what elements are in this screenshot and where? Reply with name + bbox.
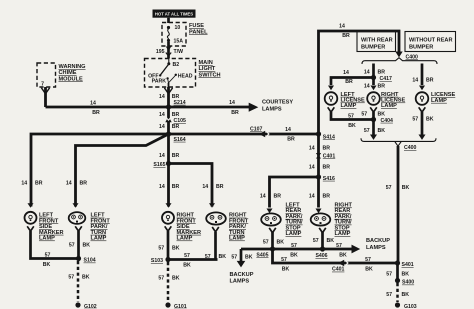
svg-text:G102: G102 — [84, 304, 97, 309]
svg-text:C400: C400 — [404, 145, 417, 151]
svg-text:57: 57 — [68, 274, 74, 280]
svg-text:G101: G101 — [174, 304, 187, 309]
svg-text:LAMP: LAMP — [177, 236, 193, 242]
svg-text:BK: BK — [402, 185, 410, 191]
svg-text:BK: BK — [365, 267, 373, 273]
svg-text:C107: C107 — [250, 126, 263, 132]
svg-text:14: 14 — [202, 184, 208, 190]
svg-text:MODULE: MODULE — [59, 76, 84, 82]
wire left rear lamp to S405 — [271, 232, 274, 249]
svg-text:S164: S164 — [174, 137, 186, 143]
arrow to backup lamps right — [352, 245, 361, 254]
svg-text:57: 57 — [386, 271, 392, 277]
svg-text:C404: C404 — [381, 118, 394, 124]
ground G101 — [165, 302, 170, 307]
svg-text:FUSE: FUSE — [189, 23, 204, 29]
svg-text:BR: BR — [35, 180, 43, 186]
svg-text:14: 14 — [260, 193, 266, 199]
splice S165 — [166, 161, 171, 166]
svg-text:BR: BR — [172, 153, 180, 159]
splice S405 — [270, 246, 275, 251]
svg-text:WITH REAR: WITH REAR — [361, 38, 393, 44]
svg-text:BK: BK — [348, 123, 356, 129]
ground wire to G102 — [77, 261, 80, 302]
svg-text:HOT AT ALL TIMES: HOT AT ALL TIMES — [155, 12, 193, 17]
svg-text:HEAD: HEAD — [178, 73, 193, 79]
svg-text:57: 57 — [412, 116, 418, 122]
svg-text:BR: BR — [345, 79, 353, 85]
svg-text:14: 14 — [343, 70, 349, 76]
svg-text:BUMPER: BUMPER — [409, 44, 433, 50]
svg-text:BR: BR — [378, 84, 386, 90]
svg-text:57: 57 — [386, 185, 392, 191]
svg-text:LAMP: LAMP — [39, 236, 55, 242]
wire left license to C404 — [331, 112, 374, 120]
splice S400 — [395, 278, 400, 283]
wire S416 down to right rear lamp — [317, 177, 320, 208]
svg-text:BR: BR — [274, 193, 282, 199]
connector C400 lower bracket — [370, 135, 377, 140]
svg-text:B2: B2 — [173, 62, 180, 68]
svg-text:T/W: T/W — [174, 49, 184, 55]
connector C404 — [371, 117, 376, 122]
wire S416 to left rear lamp — [270, 177, 319, 208]
wire S164 left to left front side marker — [31, 134, 169, 207]
wire S401 to S400 — [396, 263, 399, 281]
svg-text:PANEL: PANEL — [189, 29, 208, 35]
wire left park lamp to S104 — [77, 231, 80, 259]
svg-text:LAMPS: LAMPS — [262, 106, 282, 112]
svg-text:57: 57 — [158, 246, 164, 252]
svg-text:S406: S406 — [315, 253, 327, 259]
WITH REAR BUMPER box — [357, 32, 396, 52]
svg-text:57: 57 — [158, 275, 164, 281]
connector C400 (top half, male arrow) — [395, 52, 402, 58]
connector C401 (ground bus) — [338, 260, 344, 266]
svg-text:195: 195 — [156, 49, 165, 55]
svg-text:S165: S165 — [153, 162, 165, 168]
svg-text:BK: BK — [83, 243, 91, 249]
svg-text:BR: BR — [80, 180, 88, 186]
svg-text:LAMP: LAMP — [286, 231, 302, 237]
svg-text:57: 57 — [313, 238, 319, 244]
svg-text:PARK: PARK — [152, 78, 167, 84]
left front park/turn lamp — [69, 203, 111, 241]
svg-text:57: 57 — [361, 111, 367, 117]
svg-text:MAIN: MAIN — [199, 60, 213, 66]
connector C107 — [259, 131, 265, 137]
svg-text:CHIME: CHIME — [59, 70, 77, 76]
wire C417 left to left license lamp — [331, 78, 374, 86]
svg-text:14: 14 — [159, 184, 165, 190]
wire S414 down to S416 — [317, 134, 320, 177]
svg-text:LAMP: LAMP — [91, 236, 107, 242]
svg-text:BK: BK — [282, 267, 290, 273]
svg-text:57: 57 — [365, 257, 371, 263]
svg-text:BK: BK — [327, 238, 335, 244]
wire S164 down to S165 — [167, 134, 170, 164]
svg-text:BK: BK — [277, 240, 285, 246]
wire S164 diagonal to left front park lamp — [76, 134, 169, 207]
ground G103 — [395, 302, 400, 307]
svg-text:BR: BR — [323, 193, 331, 199]
svg-text:BR: BR — [231, 110, 239, 116]
splice S164 — [166, 131, 171, 136]
svg-text:BACKUP: BACKUP — [230, 272, 254, 278]
svg-text:BK: BK — [426, 116, 434, 122]
splice S416 — [316, 174, 321, 179]
wire S414 up and over to C400 — [319, 31, 400, 134]
svg-text:C417: C417 — [380, 76, 393, 82]
svg-text:BK: BK — [378, 111, 386, 117]
wire right park lamp to S103 — [168, 258, 218, 261]
svg-text:BK: BK — [172, 275, 180, 281]
svg-text:BK: BK — [290, 252, 298, 258]
svg-text:BR: BR — [426, 78, 434, 84]
connector C105 — [165, 116, 171, 122]
svg-text:14: 14 — [21, 180, 27, 186]
svg-text:BR: BR — [92, 110, 100, 116]
svg-text:BR: BR — [378, 69, 386, 75]
left front side marker lamp — [25, 203, 64, 241]
svg-text:BK: BK — [172, 246, 180, 252]
svg-text:COURTESY: COURTESY — [262, 100, 293, 106]
wire S164 right to S414 — [169, 133, 319, 136]
wire S165 down to right front side marker — [167, 164, 170, 207]
svg-text:LAMP: LAMP — [335, 231, 351, 237]
svg-text:57: 57 — [184, 253, 190, 259]
svg-text:14: 14 — [159, 94, 165, 100]
svg-text:14: 14 — [159, 124, 165, 130]
svg-text:BK: BK — [339, 252, 347, 258]
wire switch to S214 — [167, 87, 170, 107]
svg-text:LAMP: LAMP — [229, 236, 245, 242]
svg-text:57: 57 — [386, 292, 392, 298]
wire S165 to right front park lamp — [169, 164, 213, 207]
svg-text:BK: BK — [402, 271, 410, 277]
splice S414 — [316, 131, 321, 136]
right front park/turn lamp — [206, 203, 249, 241]
svg-text:S401: S401 — [402, 262, 414, 268]
wire C400 down to S401 — [397, 146, 400, 263]
wire right license down through C404 — [372, 112, 375, 135]
ground wire to G103 — [396, 283, 399, 302]
wire license lamp (w/o bumper) down to C400 — [421, 112, 424, 135]
connector Y below switch — [164, 88, 172, 94]
svg-text:14: 14 — [309, 193, 315, 199]
svg-text:57: 57 — [205, 254, 211, 260]
svg-text:57: 57 — [45, 252, 51, 258]
wire banner to fuse panel — [167, 18, 170, 23]
WITHOUT REAR BUMPER box — [405, 32, 456, 52]
svg-text:BR: BR — [323, 164, 331, 170]
svg-text:15A: 15A — [174, 39, 184, 45]
svg-text:14: 14 — [229, 100, 235, 106]
connector C400 bracket — [362, 58, 437, 64]
svg-text:14: 14 — [309, 146, 315, 152]
svg-text:S416: S416 — [323, 176, 335, 182]
svg-text:14: 14 — [339, 23, 345, 29]
svg-text:G103: G103 — [404, 304, 417, 309]
svg-text:57: 57 — [364, 128, 370, 134]
splice S401 — [395, 260, 400, 265]
arrow to backup lamps down — [237, 261, 246, 268]
svg-text:14: 14 — [159, 112, 165, 118]
svg-text:14: 14 — [412, 78, 418, 84]
svg-text:BR: BR — [216, 184, 224, 190]
svg-text:BK: BK — [219, 254, 227, 260]
connector C417 — [371, 75, 376, 80]
svg-text:7: 7 — [41, 82, 44, 88]
svg-text:BUMPER: BUMPER — [361, 44, 385, 50]
svg-text:WARNING: WARNING — [59, 64, 86, 70]
svg-text:14: 14 — [364, 84, 370, 90]
svg-text:LIGHT: LIGHT — [199, 66, 216, 72]
svg-text:LAMP: LAMP — [381, 103, 397, 109]
right rear park/turn/stop lamp — [311, 203, 353, 238]
svg-text:BK: BK — [402, 292, 410, 298]
svg-text:BK: BK — [183, 262, 191, 268]
svg-text:LAMP: LAMP — [431, 98, 447, 104]
svg-text:BK: BK — [245, 254, 253, 260]
wire right rear lamp to S406 — [321, 232, 324, 249]
svg-text:S414: S414 — [323, 134, 335, 140]
svg-text:BK: BK — [378, 128, 386, 134]
svg-text:WITHOUT REAR: WITHOUT REAR — [409, 38, 453, 44]
wire 195 T/W fuse to switch — [167, 42, 170, 59]
svg-text:BR: BR — [287, 137, 295, 143]
svg-text:BR: BR — [342, 33, 350, 39]
connector symbol on 195 T/W — [166, 47, 171, 52]
wire left marker to S104 — [31, 231, 79, 259]
svg-text:BACKUP: BACKUP — [366, 238, 390, 244]
svg-text:LAMPS: LAMPS — [366, 245, 386, 251]
svg-text:C401: C401 — [323, 153, 336, 159]
svg-text:57: 57 — [281, 257, 287, 263]
svg-text:57: 57 — [231, 254, 237, 260]
svg-text:57: 57 — [263, 240, 269, 246]
svg-text:BR: BR — [172, 124, 180, 130]
svg-text:S103: S103 — [151, 258, 163, 264]
right front side marker lamp — [162, 203, 201, 241]
left license lamp — [325, 86, 365, 113]
ground G102 — [75, 302, 80, 307]
splice S104 — [76, 256, 81, 261]
svg-text:14: 14 — [364, 69, 370, 75]
svg-text:BK: BK — [82, 274, 90, 280]
svg-text:S400: S400 — [402, 280, 414, 286]
wire S214 to C105 — [167, 107, 170, 134]
main light switch SW1 box — [145, 59, 196, 88]
svg-text:S104: S104 — [84, 258, 96, 264]
ground wire to G101 — [167, 262, 170, 302]
svg-text:10: 10 — [175, 25, 181, 31]
splice S103 — [165, 257, 170, 262]
license lamp (without bumper) — [416, 86, 456, 113]
wire down to backup lamps arrow — [240, 249, 243, 262]
svg-text:C400: C400 — [406, 54, 419, 60]
HOT AT ALL TIMES banner — [153, 10, 196, 18]
svg-text:BR: BR — [172, 184, 180, 190]
svg-text:S214: S214 — [174, 100, 186, 106]
warning chime module box — [37, 63, 56, 87]
left rear park/turn/stop lamp — [261, 203, 303, 238]
splice S406 — [320, 246, 325, 251]
svg-text:14: 14 — [309, 164, 315, 170]
wire C400 to C417 (with rear bumper) — [372, 64, 375, 86]
wire right marker to S103 — [167, 231, 170, 260]
svg-text:BK: BK — [43, 262, 51, 268]
svg-text:LAMPS: LAMPS — [230, 279, 250, 285]
fuse panel F1 — [162, 23, 208, 47]
wire C400 to license lamp (without rear bumper) — [421, 64, 424, 86]
switch internals — [148, 59, 193, 88]
right license lamp — [367, 86, 405, 113]
svg-text:BR: BR — [323, 146, 331, 152]
connector C401 (trunk) — [316, 153, 321, 157]
connector Y below chime — [41, 88, 49, 94]
wire S405 down and right to S401 — [273, 249, 398, 263]
svg-text:57: 57 — [336, 243, 342, 249]
svg-text:14: 14 — [159, 153, 165, 159]
arrow to courtesy lamps — [249, 103, 259, 112]
svg-text:14: 14 — [285, 127, 291, 133]
svg-text:S405: S405 — [256, 252, 268, 258]
svg-text:SWITCH: SWITCH — [199, 72, 221, 78]
svg-text:57: 57 — [348, 114, 354, 120]
svg-text:14: 14 — [66, 180, 72, 186]
main interior wire 14 BR — [46, 106, 250, 109]
svg-text:57: 57 — [69, 243, 75, 249]
wire chime module down to main wire — [44, 87, 47, 107]
svg-text:BR: BR — [172, 112, 180, 118]
rear ground bus wire — [241, 248, 352, 251]
svg-text:57: 57 — [291, 243, 297, 249]
svg-text:14: 14 — [90, 101, 96, 107]
svg-text:LAMP: LAMP — [341, 103, 357, 109]
svg-text:C401: C401 — [332, 267, 345, 273]
